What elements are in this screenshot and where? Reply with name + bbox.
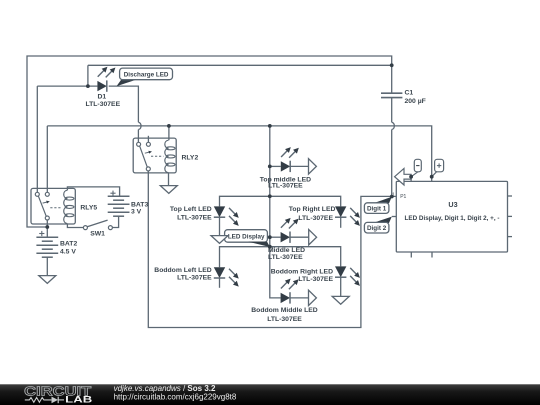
LED top left xyxy=(214,206,225,217)
wire RLY5 coil to BAT3 plus xyxy=(67,187,119,196)
ground under bottom right LED xyxy=(332,296,349,304)
U3 pin 2 left xyxy=(392,216,397,218)
callout Digit 2 pointer xyxy=(373,217,392,223)
svg-text:Top Left LED: Top Left LED xyxy=(170,206,212,213)
svg-text:LTL-307EE: LTL-307EE xyxy=(268,254,303,261)
svg-text:LTL-307EE: LTL-307EE xyxy=(177,215,212,222)
label RLY5 xyxy=(80,205,97,212)
svg-text:BAT3: BAT3 xyxy=(131,201,148,208)
svg-text:SW1: SW1 xyxy=(90,231,105,238)
relay RLY2 coil xyxy=(165,140,175,173)
callout Discharge LED pointer xyxy=(117,79,138,86)
label BAT3 xyxy=(131,201,148,208)
U3 right pins xyxy=(508,196,513,237)
wire bottom LED bus xyxy=(220,247,341,268)
LED bottom middle light arrows xyxy=(281,279,299,290)
LED top middle xyxy=(281,161,290,172)
label Boddom Right LED xyxy=(271,269,333,276)
label P1 xyxy=(400,194,406,200)
relay RLY5 contacts xyxy=(35,192,49,220)
relay RLY2 dashed link xyxy=(151,155,163,157)
wire RLY2 switch to U3 Digit 1 net xyxy=(148,171,396,328)
svg-text:LTL-307EE: LTL-307EE xyxy=(267,316,302,323)
label U3 subtitle xyxy=(405,215,500,222)
relay RLY2 contacts xyxy=(137,142,151,171)
capacitor C1 xyxy=(381,93,402,97)
label top middle value xyxy=(268,183,303,190)
svg-text:http://circuitlab.com/cxj6g229: http://circuitlab.com/cxj6g229vg8t8 xyxy=(114,393,237,402)
pin number 1 xyxy=(392,192,395,198)
wire C1 hop over bus xyxy=(392,122,395,129)
wire D1 cathode xyxy=(109,86,139,122)
label C1 value 200 uF xyxy=(405,98,426,105)
label Top Right LED xyxy=(289,206,336,213)
U3 bottom pins xyxy=(411,252,432,258)
label bottom middle value xyxy=(267,316,302,323)
wire BAT3 minus to SW1 xyxy=(112,216,118,227)
node U3 pin 1 junction xyxy=(390,195,394,199)
logo LAB text xyxy=(65,395,92,405)
logo resistor-diode line xyxy=(25,397,64,404)
LED D1 light arrows xyxy=(98,67,116,78)
node middle LED junction xyxy=(268,235,272,239)
footer title line xyxy=(114,384,216,393)
label SW1 xyxy=(90,231,105,238)
svg-text:Middle LED: Middle LED xyxy=(268,247,305,254)
svg-text:200 µF: 200 µF xyxy=(405,98,426,105)
LED middle light arrows xyxy=(281,218,299,229)
wire RLY5 switch common to BAT2 xyxy=(46,220,48,237)
wire middle LED cathode xyxy=(290,236,309,238)
relay RLY5 arrow xyxy=(43,201,50,204)
wire main bus xyxy=(47,126,431,177)
U3 top pin plus xyxy=(431,177,433,182)
LED top middle light arrows xyxy=(281,147,299,158)
svg-text:Discharge LED: Discharge LED xyxy=(124,71,169,78)
label top right value xyxy=(298,215,333,222)
label BAT2 value 4.5 V xyxy=(60,248,76,255)
footer bar xyxy=(0,384,540,405)
node top middle LED junction xyxy=(268,165,272,169)
node BAT2 junction xyxy=(45,225,49,229)
flag right of top middle LED xyxy=(309,159,317,174)
wire LED column bus xyxy=(270,126,281,298)
svg-text:LTL-307EE: LTL-307EE xyxy=(177,274,212,281)
label Boddom Left LED xyxy=(154,267,211,274)
svg-text:LED Display, Digit 1, Digit 2,: LED Display, Digit 1, Digit 2, +, - xyxy=(405,215,500,222)
op-amp U3 box xyxy=(396,181,507,252)
flag minus box xyxy=(414,159,421,172)
label bottom left value xyxy=(177,274,212,281)
ground under BAT2 xyxy=(39,276,56,284)
LED bottom middle xyxy=(281,292,290,303)
wire D1 cathode hop over bus xyxy=(138,122,141,129)
LED bottom left xyxy=(214,267,225,278)
wire top border loop xyxy=(27,56,392,227)
node bottom bus junction xyxy=(268,245,272,249)
battery BAT2 plus sign xyxy=(39,231,44,236)
net flag P1 arrow xyxy=(395,168,412,185)
relay RLY5 dashed link xyxy=(50,207,61,209)
flag right of bottom middle LED xyxy=(309,290,317,305)
svg-text:Boddom Middle LED: Boddom Middle LED xyxy=(251,307,318,314)
node LED column junction xyxy=(268,124,272,128)
wire D1 anode drop xyxy=(87,65,89,86)
relay RLY5 coil xyxy=(64,190,74,223)
callout Digit 1 text xyxy=(367,206,387,213)
LED bottom right light arrows xyxy=(350,268,360,286)
svg-text:D1: D1 xyxy=(97,94,106,101)
svg-text:LAB: LAB xyxy=(65,395,92,405)
wire RLY5 right pin xyxy=(46,126,48,192)
LED bottom right xyxy=(335,266,346,277)
svg-text:C1: C1 xyxy=(405,89,414,96)
callout Discharge LED text xyxy=(124,71,169,78)
wire RLY5 coil to SW1 xyxy=(67,224,83,228)
svg-text:LTL-307EE: LTL-307EE xyxy=(298,215,333,222)
footer url line xyxy=(114,393,237,402)
svg-text:P1: P1 xyxy=(400,194,406,200)
flag plus glyph xyxy=(437,163,441,167)
label bottom right value xyxy=(298,276,333,283)
wire RLY2 coil to ground xyxy=(168,173,170,186)
node RLY2 coil junction xyxy=(167,124,171,128)
label D1 xyxy=(97,94,106,101)
wire BAT2 to ground xyxy=(46,257,48,275)
battery BAT3 xyxy=(108,196,130,216)
wire RLY2 coil top xyxy=(168,126,170,140)
svg-text:LTL-307EE: LTL-307EE xyxy=(298,276,333,283)
svg-text:U3: U3 xyxy=(448,200,457,209)
flag plus box xyxy=(435,159,444,172)
svg-text:LTL-307EE: LTL-307EE xyxy=(85,101,120,108)
wire top LED bus xyxy=(220,196,341,206)
callout Digit 1 box xyxy=(364,203,389,214)
wire bus from D1 anode to C1 top xyxy=(88,65,392,93)
ground under top left LED xyxy=(211,236,228,244)
flag right of middle LED xyxy=(309,230,317,245)
wire middle LED anode xyxy=(270,236,281,238)
svg-text:4.5 V: 4.5 V xyxy=(60,248,76,255)
relay RLY2 unconnected stub xyxy=(147,136,149,143)
wire bottom right LED cathode xyxy=(340,277,342,296)
svg-text:Boddom Right LED: Boddom Right LED xyxy=(271,269,333,276)
node D1 anode junction xyxy=(86,84,90,88)
relay RLY5 lever xyxy=(38,196,46,216)
wire C1 bottom xyxy=(391,98,393,123)
svg-text:Top Right LED: Top Right LED xyxy=(289,206,336,213)
callout LED Display box xyxy=(225,230,268,243)
svg-text:Digit 2: Digit 2 xyxy=(367,225,387,232)
callout Discharge LED box xyxy=(120,68,173,80)
LED top left light arrows xyxy=(229,208,239,226)
wire C1 to U3 pin 1 xyxy=(391,130,393,197)
label RLY2 xyxy=(182,155,199,162)
LED top right light arrows xyxy=(350,208,360,226)
svg-text:LED Display: LED Display xyxy=(228,234,265,241)
wire D1 anode to RLY5 xyxy=(36,86,38,192)
label top left value xyxy=(177,215,212,222)
node top bus junction xyxy=(268,194,272,198)
label Top Left LED xyxy=(170,206,212,213)
svg-text:RLY2: RLY2 xyxy=(182,155,199,162)
flag minus glyph xyxy=(416,165,419,167)
flag plus stem xyxy=(432,172,437,177)
label D1 value LTL-307EE xyxy=(85,101,120,108)
wire bottom middle LED cathode xyxy=(290,297,309,299)
relay RLY2 arrow xyxy=(145,151,152,154)
callout LED Display pointer xyxy=(248,242,270,247)
label middle value xyxy=(268,254,303,261)
svg-text:RLY5: RLY5 xyxy=(80,205,97,212)
label C1 xyxy=(405,89,414,96)
label U3 xyxy=(448,200,457,209)
label BAT2 xyxy=(60,241,77,248)
svg-text:Digit 1: Digit 1 xyxy=(367,206,387,213)
wire top right LED cathode xyxy=(340,217,342,228)
logo CIRCUIT text xyxy=(24,385,91,399)
svg-text:LTL-307EE: LTL-307EE xyxy=(268,183,303,190)
LED top right xyxy=(335,206,346,217)
callout Digit 1 pointer xyxy=(373,197,392,204)
wire top left LED cathode xyxy=(219,217,221,235)
switch SW1 xyxy=(83,220,112,230)
svg-text:Boddom Left LED: Boddom Left LED xyxy=(154,267,211,274)
relay RLY2 box xyxy=(133,138,176,173)
label Middle LED xyxy=(268,247,305,254)
LED middle xyxy=(281,232,290,243)
label Boddom Middle LED xyxy=(251,307,318,314)
wire D1 anode row xyxy=(37,85,97,87)
relay RLY5 box xyxy=(31,188,75,224)
node plus pin xyxy=(430,175,434,179)
label BAT3 value 3 V xyxy=(131,209,142,216)
callout Digit 2 box xyxy=(364,222,389,233)
node C1 top junction xyxy=(390,63,394,67)
flag minus stem xyxy=(411,172,418,177)
svg-text:vdjke.vs.capandws / Sos 3.2: vdjke.vs.capandws / Sos 3.2 xyxy=(114,384,216,393)
label Top middle LED xyxy=(260,176,311,183)
callout Digit 2 text xyxy=(367,225,387,232)
battery BAT3 plus sign xyxy=(110,191,115,196)
node minus pin xyxy=(409,175,413,179)
svg-text:3 V: 3 V xyxy=(131,209,142,216)
wire top middle LED anode xyxy=(270,165,281,167)
callout LED Display text xyxy=(228,234,265,241)
wire bottom left LED cathode xyxy=(219,278,221,288)
relay RLY2 lever xyxy=(140,146,148,167)
ground under RLY2 xyxy=(160,186,177,194)
wire top middle LED cathode xyxy=(290,165,308,167)
U3 top pin minus xyxy=(410,177,412,182)
LED D1 xyxy=(97,80,106,91)
svg-text:BAT2: BAT2 xyxy=(60,241,77,248)
LED bottom left light arrows xyxy=(229,269,239,287)
wire D1 cathode to RLY2 xyxy=(137,130,139,143)
battery BAT2 xyxy=(36,237,58,257)
